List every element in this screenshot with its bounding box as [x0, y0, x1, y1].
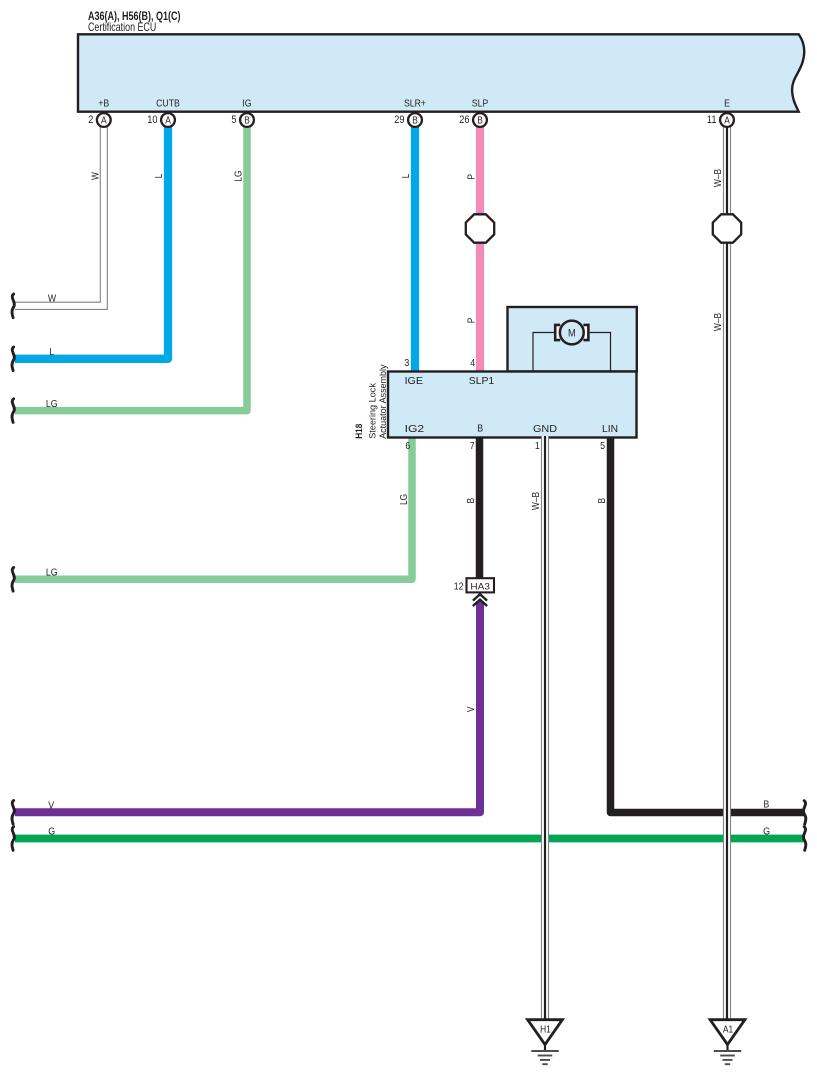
- svg-text:W: W: [90, 172, 101, 180]
- svg-text:3: 3: [404, 357, 409, 369]
- svg-text:P: P: [466, 317, 477, 323]
- svg-text:V: V: [466, 706, 477, 712]
- svg-text:+B: +B: [98, 99, 109, 110]
- svg-text:Certification ECU: Certification ECU: [88, 21, 156, 34]
- svg-text:4: 4: [470, 357, 475, 369]
- svg-text:B: B: [466, 498, 477, 504]
- svg-text:10: 10: [147, 114, 157, 126]
- svg-text:11: 11: [707, 114, 717, 126]
- svg-text:W–B: W–B: [713, 313, 724, 331]
- svg-text:IGE: IGE: [405, 375, 423, 387]
- svg-text:LIN: LIN: [602, 423, 618, 435]
- svg-text:GND: GND: [533, 423, 557, 435]
- svg-text:B: B: [763, 798, 769, 810]
- svg-text:LG: LG: [399, 494, 410, 505]
- svg-text:B: B: [477, 116, 483, 127]
- svg-text:SLP: SLP: [472, 99, 489, 110]
- svg-text:7: 7: [470, 440, 475, 452]
- svg-text:SLP1: SLP1: [469, 375, 495, 387]
- svg-text:5: 5: [231, 114, 236, 126]
- svg-text:W–B: W–B: [531, 492, 542, 510]
- svg-text:A1: A1: [723, 1025, 734, 1036]
- svg-text:L: L: [49, 346, 54, 358]
- svg-text:Actuator Assembly: Actuator Assembly: [378, 364, 389, 438]
- svg-text:G: G: [48, 826, 55, 838]
- svg-text:HA3: HA3: [470, 582, 490, 593]
- svg-text:LG: LG: [233, 170, 244, 181]
- svg-text:B: B: [597, 498, 608, 504]
- svg-text:P: P: [466, 174, 477, 180]
- svg-text:29: 29: [394, 114, 404, 126]
- svg-text:A: A: [101, 116, 107, 127]
- svg-text:IG2: IG2: [405, 423, 425, 435]
- svg-text:IG: IG: [242, 99, 251, 110]
- svg-text:12: 12: [454, 581, 464, 593]
- svg-text:L: L: [401, 173, 412, 178]
- svg-text:CUTB: CUTB: [156, 99, 180, 110]
- svg-text:B: B: [412, 116, 418, 127]
- svg-text:2: 2: [88, 114, 93, 126]
- svg-text:1: 1: [535, 440, 540, 452]
- svg-text:M: M: [568, 327, 576, 339]
- svg-text:5: 5: [600, 440, 605, 452]
- svg-text:B: B: [477, 423, 483, 435]
- svg-text:A: A: [724, 116, 730, 127]
- svg-text:B: B: [244, 116, 250, 127]
- svg-text:E: E: [724, 99, 730, 110]
- svg-text:L: L: [154, 173, 165, 178]
- svg-text:W–B: W–B: [713, 169, 724, 187]
- svg-text:26: 26: [459, 114, 469, 126]
- svg-text:LG: LG: [46, 567, 58, 579]
- svg-text:V: V: [48, 800, 54, 812]
- svg-text:W: W: [48, 292, 56, 304]
- svg-text:H1: H1: [540, 1025, 551, 1036]
- svg-text:LG: LG: [46, 398, 58, 410]
- svg-text:A: A: [165, 116, 171, 127]
- svg-text:6: 6: [405, 440, 410, 452]
- svg-text:G: G: [763, 826, 770, 838]
- svg-text:H18: H18: [354, 423, 365, 439]
- svg-text:SLR+: SLR+: [404, 99, 426, 110]
